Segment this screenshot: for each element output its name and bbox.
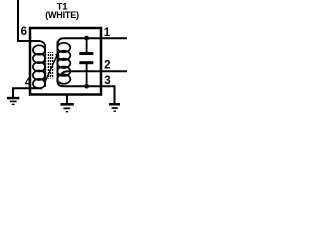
wire primary top entry curve — [38, 41, 45, 47]
secondary winding (right coil) — [57, 43, 70, 84]
svg-text:1: 1 — [104, 27, 111, 39]
wire primary bottom to pin 4 — [13, 88, 42, 97]
ground (pin 3) — [109, 103, 120, 112]
wire can ground lead — [66, 95, 68, 103]
ground (shield can) — [61, 103, 74, 112]
wire secondary top to pin 1 — [57, 38, 127, 47]
capacitor C (internal) — [86, 38, 88, 87]
svg-text:4: 4 — [25, 77, 32, 89]
svg-text:3: 3 — [104, 75, 110, 87]
node junction cap bottom — [84, 84, 89, 89]
primary winding (left coil) — [33, 45, 45, 88]
core adjustment arrow — [46, 54, 58, 81]
svg-text:2: 2 — [104, 59, 110, 71]
wire primary coil spine — [44, 44, 46, 87]
shield can of T1 — [30, 28, 101, 95]
svg-text:(WHITE): (WHITE) — [45, 10, 79, 20]
wire secondary tap to pin 2 — [61, 71, 127, 74]
adjustable core (hatched slug) — [47, 52, 54, 79]
node junction cap top — [84, 36, 89, 41]
ground (pin 4) — [7, 97, 19, 105]
svg-text:6: 6 — [21, 26, 27, 38]
wire secondary bottom to pin 3 — [57, 80, 114, 104]
wire secondary coil spine — [56, 41, 58, 83]
wire pin 6 lead-in — [17, 0, 40, 41]
